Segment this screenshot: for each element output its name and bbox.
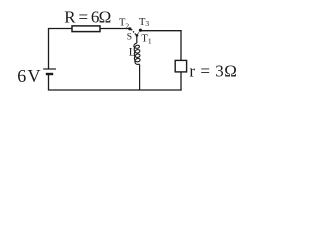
inductor L coil xyxy=(134,43,140,64)
wire top from R to T2 xyxy=(100,28,129,30)
svg-text:L: L xyxy=(129,47,136,59)
svg-text:T3: T3 xyxy=(139,17,149,28)
svg-text:T2: T2 xyxy=(119,18,129,31)
svg-text:R = 6Ω: R = 6Ω xyxy=(64,8,111,27)
switch arm arrow T1 to T3 xyxy=(137,33,138,35)
node T2 contact dot xyxy=(128,27,131,30)
wire top right from T3 to corner xyxy=(141,30,182,32)
node T1 pole dot xyxy=(136,34,139,37)
svg-text:6V: 6V xyxy=(17,66,41,86)
svg-text:T1: T1 xyxy=(141,33,151,45)
wire left vertical top segment xyxy=(48,29,50,70)
wire coil to bottom xyxy=(139,65,141,91)
node T3 contact dot xyxy=(139,29,142,32)
battery 6V long plate xyxy=(43,68,56,70)
wire bottom xyxy=(48,89,182,91)
wire left vertical bottom segment xyxy=(48,74,50,90)
switch S dashed arm T2 to T1 xyxy=(132,30,136,34)
wire T1 down to coil xyxy=(136,37,138,44)
wire right vertical bottom xyxy=(180,72,182,91)
resistor R box xyxy=(72,26,100,32)
battery 6V short plate xyxy=(46,73,53,75)
wire right vertical top xyxy=(180,30,182,60)
wire top left xyxy=(48,28,73,30)
svg-text:S: S xyxy=(127,33,132,43)
resistor r box xyxy=(175,60,186,72)
svg-text:r = 3Ω: r = 3Ω xyxy=(189,62,237,81)
